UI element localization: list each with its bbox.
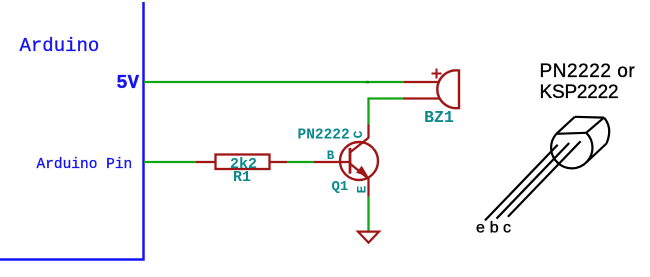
svg-text:B: B (327, 149, 335, 163)
svg-text:5V: 5V (116, 72, 139, 94)
svg-text:Arduino: Arduino (20, 35, 100, 57)
svg-text:KSP2222: KSP2222 (540, 82, 619, 103)
svg-text:PN2222 or: PN2222 or (540, 61, 636, 82)
svg-text:C: C (351, 130, 366, 138)
svg-text:b: b (490, 219, 499, 236)
svg-text:PN2222: PN2222 (298, 128, 350, 144)
svg-text:R1: R1 (233, 169, 251, 186)
svg-text:BZ1: BZ1 (424, 108, 454, 127)
svg-text:e: e (476, 219, 485, 236)
svg-text:c: c (503, 219, 511, 236)
svg-text:Q1: Q1 (332, 179, 349, 195)
svg-text:Arduino Pin: Arduino Pin (37, 157, 133, 173)
svg-text:E: E (355, 185, 370, 193)
